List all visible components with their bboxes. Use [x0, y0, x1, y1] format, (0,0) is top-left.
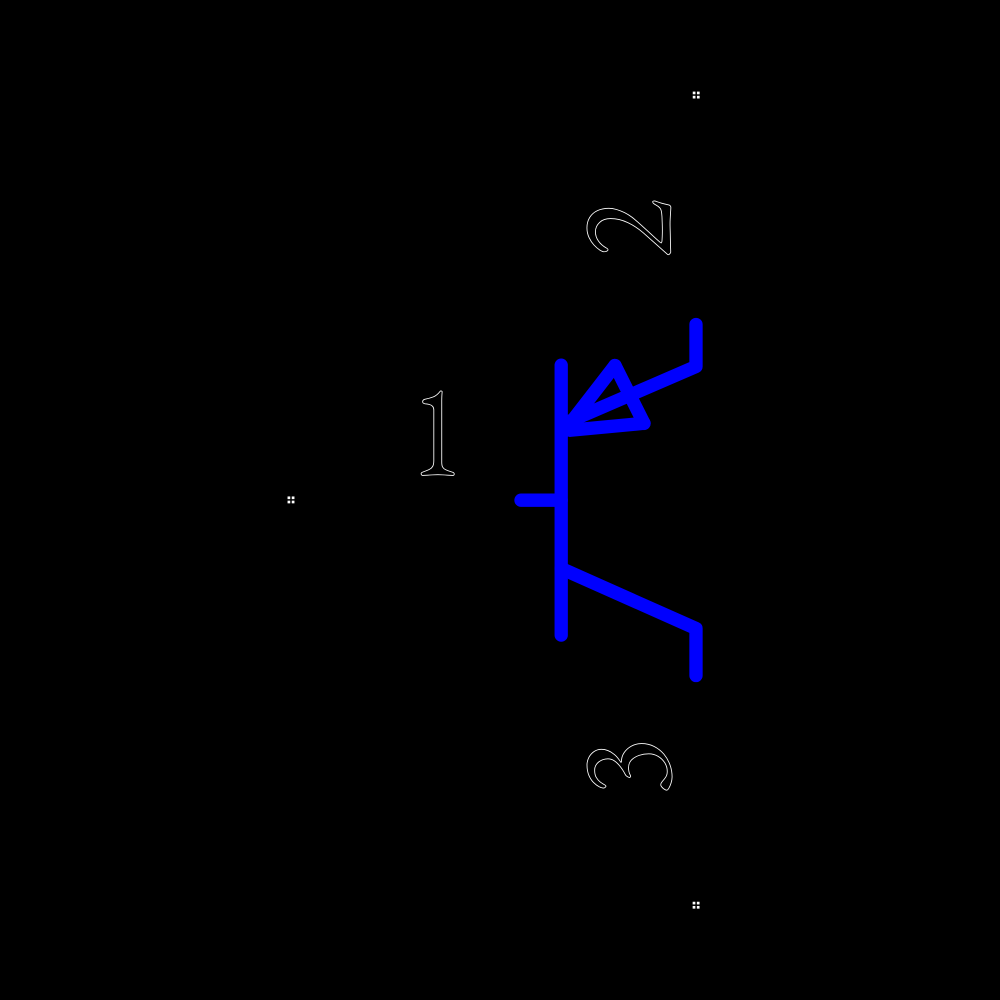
- transistor Q1 collector lead (pin 3): [561, 569, 696, 676]
- pin number 1: [421, 391, 454, 475]
- transistor Q1 emitter arrow edge 2: [615, 366, 644, 424]
- transistor Q1 emitter arrow edge 1: [564, 366, 615, 432]
- pin 2 endpoint marker: [693, 92, 700, 99]
- transistor Q1 emitter arrow edge 3: [570, 423, 644, 430]
- pin 1 endpoint marker: [288, 496, 295, 503]
- pin number 2: [587, 201, 671, 255]
- transistor Q1 base bar: [555, 365, 568, 635]
- transistor Q1 base lead (pin 1): [521, 494, 561, 507]
- pin number 3: [587, 744, 672, 791]
- pin 3 endpoint marker: [693, 902, 700, 909]
- transistor Q1 emitter lead (pin 2): [569, 325, 696, 422]
